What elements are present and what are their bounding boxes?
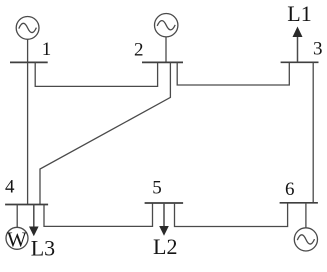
svg-text:L3: L3 (31, 236, 55, 261)
svg-text:6: 6 (285, 179, 295, 200)
bus 5 (145, 202, 184, 204)
bus 4 (5, 204, 48, 206)
wire gen6 lead (305, 203, 307, 228)
load L2 arrow (159, 203, 169, 236)
load L3 arrow (29, 205, 39, 237)
svg-text:L2: L2 (153, 234, 177, 259)
svg-text:L1: L1 (287, 1, 311, 26)
wire line 1-2 (35, 62, 157, 86)
wire line 3-6 (312, 62, 314, 203)
wire gen1 lead (27, 39, 29, 62)
generator U1 (bus 1 generator) (16, 17, 39, 40)
svg-text:4: 4 (5, 177, 15, 198)
wire line 1-4 (27, 62, 29, 204)
svg-text:5: 5 (152, 178, 162, 199)
machine W (synchronous condenser) (6, 227, 28, 251)
wire gen2 lead (165, 37, 167, 63)
wire line 5-6 (175, 203, 288, 227)
svg-text:2: 2 (134, 40, 144, 61)
wire line 4-5 (44, 203, 153, 226)
bus 2 (142, 61, 183, 63)
svg-text:W: W (7, 227, 27, 251)
bus 6 (280, 202, 318, 204)
svg-text:1: 1 (42, 39, 52, 60)
wire condenser lead (16, 205, 18, 228)
load L1 arrow (293, 27, 303, 63)
generator U2 (bus 2 generator) (155, 14, 178, 37)
wire line 2-4 diagonal (40, 62, 170, 204)
bus 1 (10, 61, 48, 63)
svg-text:3: 3 (313, 39, 323, 60)
wire line 2-3 (177, 62, 289, 85)
generator U6 (bus 6 generator) (294, 228, 317, 251)
bus 3 (281, 61, 319, 63)
